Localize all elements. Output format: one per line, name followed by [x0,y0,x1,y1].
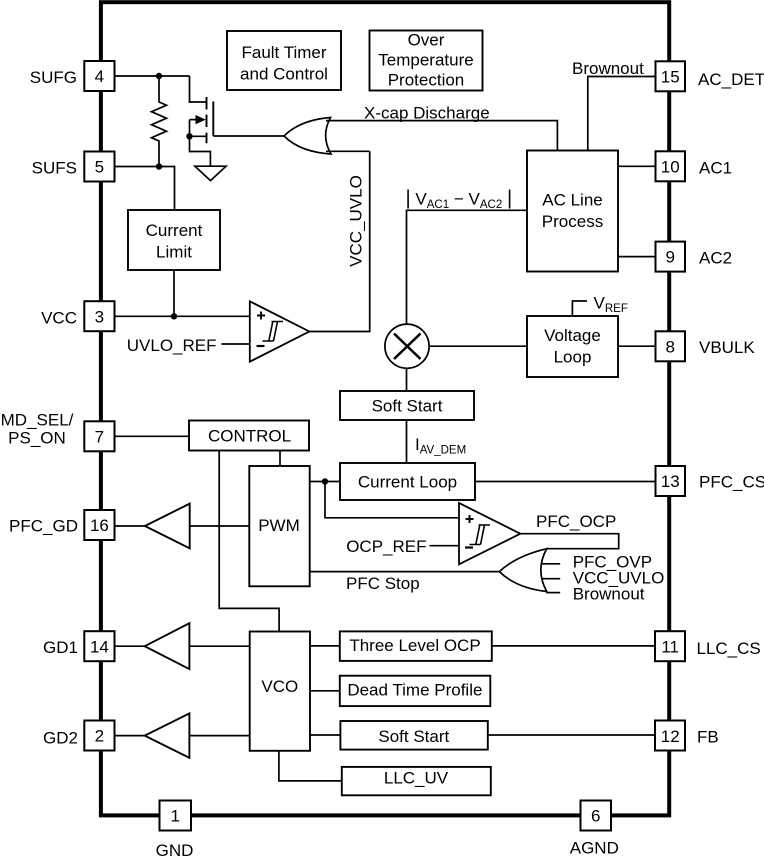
svg-text:SUFS: SUFS [32,159,77,178]
wire OR2 input stub PFC_OVP [542,563,560,565]
svg-text:PFC_OCP: PFC_OCP [536,512,616,531]
svg-text:Current Loop: Current Loop [358,473,457,492]
wire CONTROL to PWM [279,451,281,467]
svg-text:Fault Timer: Fault Timer [241,43,326,62]
block current limit [128,210,220,270]
svg-text:5: 5 [95,158,104,177]
transistor Q1 body arrow [196,115,206,124]
svg-text:Over: Over [408,31,445,50]
ground [195,166,226,180]
wire current limit to node C [173,270,175,316]
pin 8 VBULK [656,331,686,361]
wire GD2 buffer to VCO [189,735,249,737]
wire current loop to pin13 [475,481,656,483]
svg-text:Loop: Loop [554,348,592,367]
wire buffer to PWM [190,525,250,527]
svg-text:AC Line: AC Line [542,191,602,210]
wire UVLO_REF to U1 minus [222,343,250,345]
svg-text:LLC_UV: LLC_UV [384,768,449,787]
svg-text:6: 6 [591,807,600,826]
multiplier M1 [385,324,429,368]
wire GD1 buffer to VCO [189,645,249,647]
svg-text:VCC_UVLO: VCC_UVLO [347,175,366,267]
svg-text:GD2: GD2 [43,729,78,748]
U2 minus marker [465,546,473,548]
svg-text:1: 1 [170,807,179,826]
junction dot Q1 source [186,133,192,139]
U1 hysteresis symbol [263,322,284,342]
svg-text:Soft Start: Soft Start [372,397,443,416]
pin 13 PFC_CS [656,466,686,496]
transistor Q1 body wire [190,119,197,121]
transistor Q1 source wire [190,135,207,137]
chip outline [101,2,669,815]
transistor Q1 gate line [212,102,214,137]
block LLC_UV [342,767,491,795]
svg-text:PFC_GD: PFC_GD [9,517,78,536]
svg-text:Protection: Protection [388,71,465,90]
block AC line process [527,151,618,272]
transistor Q1 channel [206,97,208,143]
svg-text:11: 11 [661,637,679,656]
svg-text:4: 4 [95,67,104,86]
wire OR2 input stub VCC_UVLO [542,578,560,580]
svg-text:AGND: AGND [570,839,619,858]
block three level OCP [340,631,492,661]
wire OCP_REF to U2 minus [430,545,460,547]
wire Q1 source to ground [190,136,211,166]
svg-text:VCO: VCO [261,677,298,696]
pin 3 VCC [84,301,114,331]
wire multiplier to soft start [406,368,408,391]
op-amp U1 UVLO comparator [250,301,309,361]
junction dot node C [171,313,177,319]
wire CONTROL to VCO [219,451,279,632]
svg-text:Three Level OCP: Three Level OCP [349,636,480,655]
wire OR1 lower input stub [326,150,370,152]
svg-text:MD_SEL/: MD_SEL/ [1,411,74,430]
wire voltage loop to pin8 [618,345,656,347]
svg-text:CONTROL: CONTROL [208,427,291,446]
wire pin14 to GD1 buffer [115,645,145,647]
pin 7 MD_SEL [84,421,114,451]
block soft start LLC [340,721,487,750]
wire VCO to LLC_UV [279,751,342,781]
wire pin7 to CONTROL [115,435,190,437]
svg-text:GND: GND [156,841,194,859]
wire brownout net [588,77,656,151]
wire pin3 to comparator U1 [115,315,250,317]
wire pin4 to node A [115,75,190,77]
svg-text:LLC_CS: LLC_CS [697,639,761,658]
svg-text:12: 12 [661,727,680,746]
label MD_SEL/PS_ON [1,411,74,448]
svg-text:AC2: AC2 [699,249,732,268]
wire VCO to soft start LLC [310,734,340,736]
junction dot node A [156,73,162,79]
wire AC line process to pin10 [618,165,656,167]
svg-text:Soft Start: Soft Start [378,727,449,746]
wire node D to comparator U2 plus [325,482,459,518]
svg-text:OCP_REF: OCP_REF [346,537,426,556]
pin 6 AGND [581,801,612,831]
svg-text:9: 9 [665,248,674,267]
block VCO [250,632,310,751]
block dead time profile [340,676,491,706]
pin 2 GD2 [84,721,114,751]
wire AC line process to pin9 [618,256,656,258]
wire multiplier to voltage loop [429,345,527,347]
svg-text:15: 15 [661,67,680,86]
op-amp U2 PFC OCP comparator [459,503,520,564]
pin 12 FB [655,721,685,751]
svg-text:VCC: VCC [41,308,77,327]
U2 plus marker [466,515,474,523]
svg-text:Dead Time Profile: Dead Time Profile [347,681,482,700]
or-gate OR2 [499,549,546,592]
wire pin16 to buffer [115,525,145,527]
buffer GD1 driver [145,623,190,669]
wire PWM to current loop [309,481,340,483]
block PWM [249,466,309,586]
block voltage loop [527,316,618,377]
wire VREF stub [572,301,587,316]
svg-text:7: 7 [95,427,104,446]
svg-text:PFC_CS: PFC_CS [699,473,764,492]
U1 plus marker [257,312,265,320]
svg-text:8: 8 [665,337,674,356]
svg-text:PS_ON: PS_ON [8,429,66,448]
svg-text:10: 10 [661,157,680,176]
wire pin5 to current limit [115,167,175,211]
svg-text:FB: FB [697,727,719,746]
svg-text:3: 3 [95,307,104,326]
svg-text:AC_DET: AC_DET [698,70,764,89]
pin 10 AC1 [656,151,686,181]
wire PFC_OCP net [520,534,618,549]
block CONTROL [189,421,309,451]
wire PFC Stop net [309,571,499,573]
buffer PFC_GD driver [145,504,190,549]
svg-text:13: 13 [661,472,680,491]
svg-text:and Control: and Control [240,65,328,84]
wire OR2 input stub Brownout [546,592,560,594]
svg-text:Limit: Limit [156,243,192,262]
pin 9 AC2 [656,242,686,272]
wire VCO to dead time profile [310,690,340,692]
svg-text:SUFG: SUFG [30,68,77,87]
svg-text:PWM: PWM [258,516,300,535]
wire IAV_DEM net [406,420,408,463]
wire three level OCP to pin11 [492,645,655,647]
svg-text:14: 14 [90,637,109,656]
junction dot node B [156,163,162,169]
buffer GD2 driver [145,713,190,758]
pin 14 GD1 [84,631,114,661]
wire OR1 output to Q1 gate [213,135,284,137]
pin 4 SUFG [84,61,114,91]
junction dot node D [322,478,328,484]
pin 1 GND [160,801,192,831]
wire X-cap discharge net [326,121,557,151]
svg-text:VBULK: VBULK [699,338,755,357]
svg-text:2: 2 [95,727,104,746]
svg-text:Voltage: Voltage [544,326,601,345]
block over temperature protection [370,31,483,91]
svg-text:Brownout: Brownout [573,585,645,604]
svg-text:X-cap Discharge: X-cap Discharge [364,103,490,122]
wire VCO to three level OCP [310,645,340,647]
or-gate OR1 [284,118,331,155]
svg-text:Process: Process [542,212,603,231]
wire Q1 body to source [189,120,191,137]
wire VAC difference net [407,210,528,324]
pin 5 SUFS [84,152,114,182]
svg-text:UVLO_REF: UVLO_REF [127,336,217,355]
block current loop [340,463,475,500]
block fault timer and control [227,31,341,90]
wire pin2 to GD2 buffer [115,735,145,737]
svg-text:Temperature: Temperature [378,51,473,70]
wire VCC_UVLO net [309,151,369,331]
pin 15 AC_DET [656,61,686,91]
svg-text:Brownout: Brownout [572,59,644,78]
svg-text:AC1: AC1 [699,158,732,177]
svg-text:PFC Stop: PFC Stop [346,574,420,593]
wire node A to Q1 drain [190,76,207,102]
U1 minus marker [257,345,265,347]
U2 hysteresis symbol [470,525,491,545]
pin 16 PFC_GD [84,510,114,540]
pin 11 LLC_CS [655,631,685,661]
wire soft start LLC to pin12 [488,734,655,736]
resistor R1 [152,76,167,167]
svg-text:GD1: GD1 [43,638,78,657]
block soft start PFC [340,391,474,420]
svg-text:16: 16 [90,516,109,535]
svg-text:Current: Current [146,221,203,240]
